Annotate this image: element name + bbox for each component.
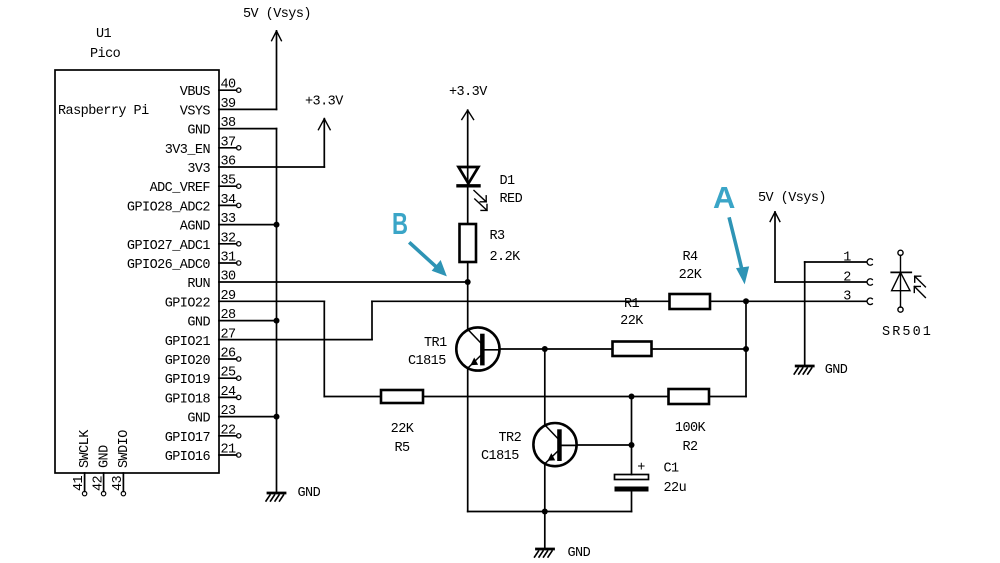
svg-text:22: 22 (221, 423, 237, 438)
svg-text:+3.3V: +3.3V (449, 85, 488, 100)
node junction AGND bus (274, 222, 280, 228)
svg-text:U1: U1 (96, 27, 112, 42)
connector pin 3 label (843, 290, 851, 305)
svg-text:R1: R1 (624, 297, 640, 312)
transistor TR1 C1815 (456, 327, 499, 370)
label D1 (500, 174, 516, 189)
wire TR2 collector vertical (544, 349, 546, 425)
svg-text:5V (Vsys): 5V (Vsys) (758, 191, 826, 206)
svg-text:VBUS: VBUS (180, 85, 211, 100)
svg-text:GPIO27_ADC1: GPIO27_ADC1 (127, 239, 211, 254)
svg-text:32: 32 (221, 231, 237, 246)
node junction TR2 emitter / GND (542, 509, 548, 515)
connector pin 2 label (843, 270, 851, 285)
svg-text:34: 34 (221, 193, 237, 208)
svg-text:25: 25 (221, 366, 237, 381)
svg-text:GPIO28_ADC2: GPIO28_ADC2 (127, 200, 211, 215)
wire AGND pin33 to bus (219, 224, 277, 226)
svg-text:GPIO16: GPIO16 (165, 450, 211, 465)
power symbol +3.3V middle (LED supply) (449, 85, 488, 186)
resistor R2 (669, 389, 710, 404)
wire VSYS pin39 to 5V (219, 108, 277, 110)
node junction GND28 bus (274, 318, 280, 324)
annotation letter B (392, 206, 408, 241)
svg-text:3V3_EN: 3V3_EN (165, 143, 211, 158)
svg-text:GPIO17: GPIO17 (165, 431, 211, 446)
label R1 (624, 297, 640, 312)
connector pin 2 open end (867, 279, 872, 285)
U1 pin 30 (RUN) (187, 270, 236, 293)
svg-text:SWDIO: SWDIO (117, 430, 132, 468)
label Raspberry Pi (58, 104, 149, 119)
svg-text:A: A (713, 180, 735, 215)
diode D1 RED LED (458, 167, 487, 210)
wire GPIO21 vertical leg (371, 301, 373, 339)
svg-text:R4: R4 (682, 250, 698, 265)
power symbol +3.3V left (305, 94, 344, 167)
wire ground bus vertical (276, 129, 278, 493)
U1 pin 37 (3V3_EN) (165, 135, 241, 158)
label U1 (96, 27, 112, 42)
resistor R4 (670, 294, 711, 309)
svg-text:26: 26 (221, 347, 237, 362)
svg-text:2: 2 (843, 270, 851, 285)
svg-text:22u: 22u (664, 481, 687, 496)
resistor R3 (460, 224, 477, 262)
label RED (500, 192, 523, 207)
op-amp U1 body (Raspberry Pi Pico box) (55, 70, 219, 473)
svg-text:ADC_VREF: ADC_VREF (150, 181, 211, 196)
svg-text:GPIO18: GPIO18 (165, 392, 211, 407)
svg-text:3: 3 (843, 290, 851, 305)
U1 pin 26 (GPIO20) (165, 347, 241, 370)
node junction C1 top / R2 row (629, 394, 635, 400)
svg-text:GND: GND (187, 412, 210, 427)
U1 pin 24 (GPIO18) (165, 385, 241, 408)
label 22K (R4) (679, 268, 703, 283)
svg-text:GPIO19: GPIO19 (165, 373, 211, 388)
svg-text:TR1: TR1 (424, 336, 447, 351)
svg-text:31: 31 (221, 251, 237, 266)
U1 pin 28 (GND) (187, 308, 236, 331)
wire A column to R2 (709, 396, 746, 398)
wire R3 to node B (467, 262, 469, 282)
U1 pin 27 (GPIO21) (165, 327, 236, 350)
svg-text:D1: D1 (500, 174, 516, 189)
svg-text:GND: GND (187, 124, 210, 139)
svg-text:22K: 22K (620, 314, 644, 329)
svg-text:Raspberry Pi: Raspberry Pi (58, 104, 149, 119)
svg-text:3V3: 3V3 (187, 162, 210, 177)
U1 pin 33 (AGND) (180, 212, 236, 235)
label 22K (R1) (620, 314, 644, 329)
wire GPIO21 pin27 horizontal (219, 339, 372, 341)
svg-text:VSYS: VSYS (180, 104, 211, 119)
label TR2 (499, 431, 522, 446)
capacitor C1 22u electrolytic (615, 475, 649, 512)
power symbol 5V (Vsys) right (758, 191, 826, 282)
svg-text:22K: 22K (391, 422, 415, 437)
U1 pin 31 (GPIO26_ADC0) (127, 251, 241, 274)
U1 pin 32 (GPIO27_ADC1) (127, 231, 241, 254)
svg-text:40: 40 (221, 78, 237, 93)
wire TR1 emitter down (467, 369, 469, 512)
resistor R5 (381, 390, 423, 403)
sensor SR501 photodiode symbol (891, 250, 925, 312)
label 22K (R5) (391, 422, 415, 437)
power symbol 5V (Vsys) left (243, 7, 311, 109)
svg-text:1: 1 (843, 250, 851, 265)
annotation letter A (713, 180, 735, 215)
connector pin 1 label (843, 250, 851, 265)
wire GPIO21 to R4 (372, 300, 670, 302)
wire R1 to node A column (652, 348, 747, 350)
U1 pin 23 (GND) (187, 404, 236, 427)
wire bottom row TR1 emitter to C1 (468, 511, 632, 513)
svg-text:R2: R2 (682, 440, 698, 455)
connector pin 1 open end (867, 259, 872, 265)
svg-text:GPIO22: GPIO22 (165, 296, 211, 311)
transistor TR2 C1815 (533, 423, 576, 466)
node junction TR1 base / TR2 collector (542, 346, 548, 352)
svg-text:GPIO26_ADC0: GPIO26_ADC0 (127, 258, 211, 273)
node junction GND23 bus (274, 414, 280, 420)
wire node A vertical (745, 301, 747, 396)
svg-text:35: 35 (221, 174, 237, 189)
label R3 (490, 229, 506, 244)
svg-text:TR2: TR2 (499, 431, 522, 446)
wire RUN pin30 to node B (219, 281, 468, 283)
label 22u (664, 481, 687, 496)
U1 pin 36 (3V3) (187, 155, 236, 178)
svg-text:37: 37 (221, 135, 237, 150)
svg-text:Pico: Pico (90, 47, 121, 62)
U1 pin 22 (GPIO17) (165, 423, 241, 446)
svg-text:5V (Vsys): 5V (Vsys) (243, 7, 311, 22)
annotation arrow A (730, 219, 749, 283)
svg-text:GPIO21: GPIO21 (165, 335, 211, 350)
U1 pin 40 (VBUS) (180, 78, 241, 101)
U1 pin 34 (GPIO28_ADC2) (127, 193, 241, 216)
svg-text:GND: GND (825, 363, 848, 378)
svg-text:SR501: SR501 (882, 325, 933, 340)
svg-text:C1815: C1815 (481, 449, 519, 464)
label Pico (90, 47, 121, 62)
wire TR2 emitter down (544, 464, 546, 549)
svg-text:43: 43 (111, 475, 126, 491)
svg-text:R3: R3 (490, 229, 506, 244)
svg-text:+3.3V: +3.3V (305, 94, 344, 109)
svg-text:R5: R5 (394, 441, 410, 456)
wire GPIO22 vertical leg (323, 301, 325, 396)
wire SR501 gnd vertical (804, 262, 806, 366)
U1 pin 38 (GND) (187, 116, 236, 139)
wire GPIO22 to R5 (324, 396, 381, 398)
label R5 (394, 441, 410, 456)
wire GND pin23 to bus (219, 416, 277, 418)
svg-text:21: 21 (221, 443, 237, 458)
U1 pin 29 (GPIO22) (165, 289, 236, 312)
label C1815 (TR1) (408, 354, 446, 369)
svg-text:100K: 100K (675, 421, 707, 436)
U1 pin 35 (ADC_VREF) (150, 174, 241, 197)
U1 pin 43 (SWDIO) bottom (111, 430, 132, 496)
svg-text:GND: GND (98, 445, 113, 468)
U1 pin 21 (GPIO16) (165, 443, 241, 466)
svg-text:B: B (392, 206, 408, 241)
wire GPIO22 pin29 horizontal (219, 300, 324, 302)
label R4 (682, 250, 698, 265)
U1 pin 25 (GPIO19) (165, 366, 241, 389)
label 100K (R2) (675, 421, 707, 436)
ground symbol TR2 (535, 546, 591, 561)
wire R4 to node A (710, 300, 746, 302)
wire 5V to SR501 pin2 (775, 281, 867, 283)
svg-text:24: 24 (221, 385, 237, 400)
node junction A column / R1 row (743, 346, 749, 352)
U1 pin 39 (VSYS) (180, 97, 236, 120)
resistor R1 (613, 342, 652, 357)
svg-text:RED: RED (500, 192, 523, 207)
U1 pin 41 (SWCLK) bottom (72, 429, 93, 496)
wire 3V3 pin36 to +3.3V (219, 166, 324, 168)
svg-text:GND: GND (298, 486, 321, 501)
wire GND pin28 to bus (219, 320, 277, 322)
node B junction (465, 279, 471, 285)
svg-text:SWCLK: SWCLK (78, 429, 93, 468)
label R2 (682, 440, 698, 455)
svg-text:+: + (637, 461, 645, 476)
label SR501 (882, 325, 933, 340)
svg-text:22K: 22K (679, 268, 703, 283)
wire D1 to R3 (467, 188, 469, 225)
svg-text:C1: C1 (664, 462, 680, 477)
svg-text:GND: GND (187, 316, 210, 331)
wire R5 to R2 (423, 396, 669, 398)
label C1815 (TR2) (481, 449, 519, 464)
svg-text:C1815: C1815 (408, 354, 446, 369)
label TR1 (424, 336, 447, 351)
wire TR1 base to R1 (500, 348, 613, 350)
U1 pin 42 (GND) bottom (92, 445, 113, 496)
svg-text:GPIO20: GPIO20 (165, 354, 211, 369)
wire C1 column vertical (631, 397, 633, 475)
wire node B to TR1 collector (467, 282, 469, 330)
label + (C1 polarity) (637, 461, 645, 476)
node A junction (743, 298, 749, 304)
svg-text:41: 41 (72, 475, 87, 491)
connector pin 3 open end (867, 298, 872, 304)
node junction TR2 base / C1 (629, 442, 635, 448)
annotation arrow B (411, 244, 447, 276)
svg-text:RUN: RUN (187, 277, 210, 292)
label C1 (664, 462, 680, 477)
label 2.2K (490, 250, 522, 265)
svg-text:2.2K: 2.2K (490, 250, 522, 265)
wire node A to SR501 pin3 (746, 300, 867, 302)
ground symbol SR501 (794, 363, 848, 378)
svg-text:GND: GND (568, 546, 591, 561)
svg-text:42: 42 (92, 475, 107, 491)
wire GND pin38 to ground bus (219, 128, 277, 130)
svg-text:AGND: AGND (180, 220, 211, 235)
wire TR2 base to C1 column (577, 444, 632, 446)
wire SR501 pin1 to ground (805, 261, 867, 263)
ground symbol left (266, 486, 321, 501)
